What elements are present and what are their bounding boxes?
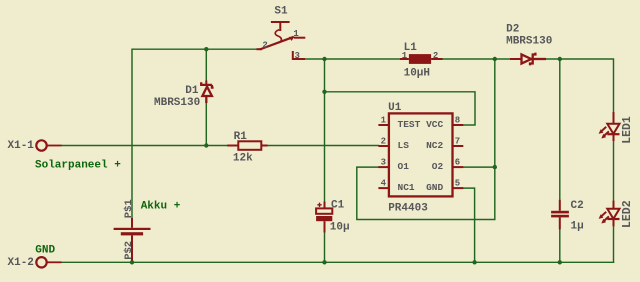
capacitor C2 [551, 200, 569, 230]
terminal X1-1 [36, 140, 61, 150]
svg-text:3: 3 [295, 51, 300, 61]
junction battery minus to bottom rail [130, 260, 134, 264]
junction O2 to LX rail [493, 165, 497, 169]
svg-text:6: 6 [455, 158, 460, 168]
IC U1 PR4403 body [378, 113, 463, 196]
junction VCC feed [322, 90, 326, 94]
svg-text:GND: GND [426, 182, 443, 193]
svg-text:12k: 12k [233, 153, 253, 165]
svg-text:NC1: NC1 [398, 182, 415, 193]
LED1 [599, 112, 620, 141]
pin 8 VCC stub [453, 124, 464, 126]
wire net top rail D2 to right corner and down to LED1 [546, 59, 614, 112]
pin 3 O1 stub [378, 166, 388, 168]
svg-text:PR4403: PR4403 [388, 203, 428, 215]
pin 4 NC1 stub [378, 187, 388, 189]
svg-text:C2: C2 [571, 200, 584, 212]
svg-text:GND: GND [35, 244, 55, 256]
svg-text:3: 3 [381, 158, 386, 168]
svg-text:D2: D2 [506, 24, 519, 36]
diode D1 MBRS130 schottky, pointing up [201, 81, 213, 104]
wire VCC vertical rail to C1 [324, 59, 326, 202]
capacitor C1 polarized [316, 202, 332, 233]
svg-text:LED2: LED2 [621, 200, 634, 228]
pin 2 LS stub [378, 145, 388, 147]
svg-text:Solarpaneel +: Solarpaneel + [35, 160, 121, 172]
svg-text:X1-1: X1-1 [8, 140, 35, 152]
junction C1 to bottom rail [322, 260, 326, 264]
svg-text:R1: R1 [234, 131, 248, 143]
wire D1 branch top [205, 49, 207, 80]
svg-text:2: 2 [433, 51, 438, 61]
wire C2 branch bottom [559, 229, 561, 262]
wire C1 bottom to rail [324, 233, 326, 263]
pin 5 GND stub [453, 187, 464, 189]
svg-text:LED1: LED1 [621, 116, 634, 144]
svg-text:U1: U1 [388, 102, 402, 114]
junction solar row to D1 [204, 143, 208, 147]
svg-text:1: 1 [402, 51, 408, 61]
pin 6 O2 stub [453, 166, 464, 168]
wire C2 branch top [559, 59, 561, 200]
svg-text:P$1: P$1 [123, 199, 135, 218]
switch S1 [258, 22, 305, 59]
svg-text:C1: C1 [331, 200, 345, 212]
svg-text:4: 4 [381, 179, 387, 189]
junction C2 to bottom rail [558, 260, 562, 264]
svg-text:O2: O2 [432, 161, 444, 172]
wire O2 pin 6 to LX node [463, 166, 495, 168]
svg-text:10μH: 10μH [404, 68, 430, 80]
pin 7 NC2 stub [453, 145, 464, 147]
svg-text:O1: O1 [398, 161, 410, 172]
svg-text:Akku +: Akku + [141, 200, 181, 212]
wire solar panel row X1-1 to R1 [62, 145, 228, 147]
resistor R1 [227, 141, 267, 150]
junction IC GND to bottom rail [472, 260, 476, 264]
svg-text:1μ: 1μ [571, 221, 584, 233]
diode D2 MBRS130 schottky, pointing right [510, 53, 546, 66]
wire GND pin 5 to bottom rail [463, 188, 474, 262]
wire battery plus to switch pin2, top-left [132, 49, 258, 218]
wire net VCC top rail segment pin3 to L1 [304, 58, 400, 60]
svg-text:1: 1 [381, 115, 387, 125]
junction top rail to C1/VCC rail [322, 57, 326, 61]
junction top rail to C2 rail [558, 57, 562, 61]
svg-text:MBRS130: MBRS130 [506, 36, 552, 48]
wire net top rail L1 to D2 [443, 58, 510, 60]
svg-text:2: 2 [381, 136, 386, 146]
wire R1 to IC pin 2 LS [268, 145, 379, 147]
svg-text:S1: S1 [274, 6, 288, 18]
svg-text:LS: LS [398, 140, 410, 151]
svg-text:NC2: NC2 [426, 140, 443, 151]
svg-text:1: 1 [293, 29, 299, 39]
wire LED2 cathode to bottom rail [613, 226, 615, 262]
svg-text:VCC: VCC [426, 119, 443, 130]
svg-text:5: 5 [455, 179, 460, 189]
terminal X1-2 [36, 257, 61, 267]
wire bottom GND rail [62, 261, 614, 263]
svg-text:7: 7 [455, 136, 460, 146]
svg-text:MBRS130: MBRS130 [154, 97, 200, 109]
svg-text:X1-2: X1-2 [8, 257, 34, 269]
pin 1 TEST stub [378, 124, 388, 126]
svg-text:8: 8 [455, 115, 460, 125]
wire VCC feed to IC pin 8 [325, 92, 476, 125]
svg-text:P$2: P$2 [123, 241, 135, 260]
junction switch to D1 [204, 47, 208, 51]
svg-text:TEST: TEST [398, 119, 421, 130]
LED2 [599, 201, 620, 227]
svg-text:10μ: 10μ [330, 222, 350, 234]
battery B1 [114, 218, 151, 261]
wire LX vertical rail and U-loop to O1 pin 3 [357, 59, 495, 220]
junction top rail to LX rail [493, 57, 497, 61]
wire LED1 cathode to LED2 anode [613, 141, 615, 201]
wire D1 branch bottom [205, 103, 207, 146]
inductor L1 [400, 54, 443, 64]
svg-text:D1: D1 [185, 85, 199, 97]
svg-text:2: 2 [262, 40, 267, 50]
